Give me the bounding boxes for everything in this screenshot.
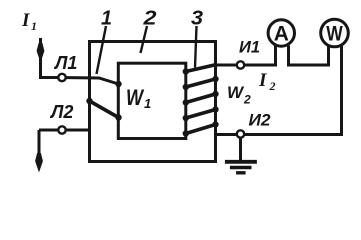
svg-text:W: W: [227, 83, 245, 102]
svg-text:И1: И1: [239, 39, 260, 57]
svg-text:2: 2: [243, 93, 251, 107]
svg-text:Л2: Л2: [49, 102, 73, 122]
svg-text:A: A: [274, 22, 289, 45]
svg-text:1: 1: [101, 8, 112, 30]
svg-text:3: 3: [191, 8, 203, 30]
svg-text:W: W: [126, 85, 145, 110]
svg-text:2: 2: [269, 79, 276, 93]
svg-text:1: 1: [31, 19, 37, 33]
svg-text:И2: И2: [249, 112, 271, 130]
svg-text:Л1: Л1: [53, 53, 77, 73]
svg-text:I: I: [21, 10, 30, 31]
svg-text:1: 1: [144, 96, 151, 111]
svg-text:2: 2: [142, 8, 156, 30]
svg-text:W: W: [326, 22, 343, 45]
svg-text:I: I: [258, 70, 267, 91]
